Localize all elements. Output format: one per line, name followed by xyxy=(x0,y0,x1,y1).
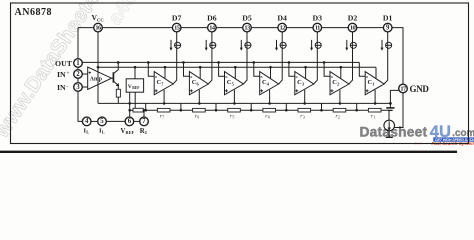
current source I5 xyxy=(240,40,251,51)
wire lower ladder line xyxy=(130,109,389,111)
pin 3 IN- xyxy=(74,83,83,92)
pin 15 terminal xyxy=(172,23,181,32)
label R2 pin7 xyxy=(140,128,147,135)
ladder tap link node 2 xyxy=(320,103,323,111)
pin 10 terminal xyxy=(348,23,357,32)
wire C4 plus input to ladder tap xyxy=(268,90,271,105)
label OUT xyxy=(55,59,73,68)
wire Vref to pin6 xyxy=(128,92,131,117)
svg-text:REF: REF xyxy=(132,86,140,90)
wire busA to C7 minus input xyxy=(147,61,154,76)
svg-text:9: 9 xyxy=(386,24,390,31)
pin 2 IN+ xyxy=(74,70,83,79)
resistor R emitter xyxy=(116,86,120,104)
wire pin3 down to pin4 xyxy=(78,91,82,121)
pin 13 terminal xyxy=(243,23,252,32)
Vref block U2 xyxy=(126,66,143,92)
label D6 xyxy=(207,13,217,22)
wire busA to C2 minus input xyxy=(323,61,330,76)
ladder tap link node 4 xyxy=(250,103,253,111)
svg-text:2: 2 xyxy=(145,130,147,135)
svg-text:IN: IN xyxy=(57,70,66,79)
wire C2 plus input to ladder tap xyxy=(339,90,342,105)
wire signal bus A from OUT xyxy=(82,61,359,63)
label Vcc xyxy=(92,13,104,22)
pin 16 terminal xyxy=(94,23,103,32)
svg-text:D7: D7 xyxy=(172,13,182,22)
resistor r1 xyxy=(368,108,381,119)
current source I2 xyxy=(345,40,356,51)
wire IN+ pin2 to amp xyxy=(82,73,87,75)
svg-text:3: 3 xyxy=(76,84,80,91)
ladder tap link node 3 xyxy=(285,103,288,111)
wire Vcc pin16 down xyxy=(97,32,100,104)
resistor r7 xyxy=(157,108,170,119)
resistor r3 xyxy=(298,108,311,119)
pin 5 IL xyxy=(98,117,107,126)
svg-text:D3: D3 xyxy=(313,13,323,22)
svg-text:CC: CC xyxy=(97,18,104,23)
ladder tap link node 6 xyxy=(180,103,183,111)
svg-text:D2: D2 xyxy=(348,13,358,22)
svg-text:1: 1 xyxy=(76,60,80,67)
svg-text:L: L xyxy=(86,130,89,135)
resistor r5 xyxy=(228,108,241,119)
wire busB drop to C4 xyxy=(269,66,272,79)
comparator C4 xyxy=(260,72,279,95)
comparator C1 xyxy=(365,72,384,95)
wire output column D3 xyxy=(314,32,318,84)
pin 17 GND xyxy=(399,84,408,93)
wire rail corner down to pin1 xyxy=(77,28,79,59)
svg-text:5: 5 xyxy=(100,118,104,125)
current source I7 xyxy=(170,40,181,51)
wire pin17 to ground node xyxy=(390,90,399,102)
label IN+ xyxy=(57,70,70,79)
svg-text:4: 4 xyxy=(268,115,270,120)
svg-text:D5: D5 xyxy=(242,13,252,22)
svg-text:OUT: OUT xyxy=(55,59,73,68)
svg-text:IN: IN xyxy=(57,83,66,92)
page bottom rule xyxy=(0,151,457,153)
resistor r4 xyxy=(263,108,276,119)
ladder tap link node 5 xyxy=(215,103,218,111)
wire busA to C6 minus input xyxy=(182,61,189,76)
logo Datasheet4U.com gray text xyxy=(360,124,428,139)
svg-text:Datasheet: Datasheet xyxy=(360,124,428,139)
wire pin5 to pin6 xyxy=(106,120,125,122)
wire C3 plus input to ladder tap xyxy=(303,90,306,105)
wire busA to C3 minus input xyxy=(288,61,295,76)
label D4 xyxy=(277,13,287,22)
label D2 xyxy=(348,13,358,22)
wire pin1-pin2-pin3 links xyxy=(77,67,79,82)
comparator C5 xyxy=(225,72,244,95)
svg-text:12: 12 xyxy=(280,24,286,31)
wire C1 plus input to ladder tap xyxy=(374,90,377,105)
wire C6 plus input to ladder tap xyxy=(198,90,201,105)
comparator C2 xyxy=(330,72,349,95)
svg-text:2: 2 xyxy=(337,82,339,87)
svg-text:6: 6 xyxy=(197,115,199,120)
svg-text:4: 4 xyxy=(85,118,89,125)
label D3 xyxy=(313,13,323,22)
wire upper ladder line xyxy=(98,102,390,104)
wire busB drop to C5 xyxy=(234,66,237,79)
svg-text:1: 1 xyxy=(372,82,374,87)
svg-text:7: 7 xyxy=(162,115,164,120)
watermark www.DataSheet4U.com xyxy=(0,0,139,143)
wire busA to C4 minus input xyxy=(253,61,260,76)
svg-text:7: 7 xyxy=(142,118,146,125)
svg-text:11: 11 xyxy=(315,24,320,31)
wire pin6 to pin7 xyxy=(134,120,140,122)
label D5 xyxy=(242,13,252,22)
svg-text:REF: REF xyxy=(126,130,135,135)
svg-text:D4: D4 xyxy=(277,13,287,22)
wire top rail pins 16 to 9 xyxy=(78,28,403,85)
pin 9 terminal xyxy=(383,23,392,32)
svg-text:D6: D6 xyxy=(207,13,217,22)
wire output column D6 xyxy=(208,32,212,84)
watermark second tile xyxy=(104,0,143,29)
resistor r2 xyxy=(333,108,346,119)
svg-text:2: 2 xyxy=(76,71,80,78)
current source I3 xyxy=(310,40,321,51)
svg-text:L: L xyxy=(102,130,105,135)
wire IN- pin3 to amp xyxy=(82,86,87,88)
svg-text:a4U: a4U xyxy=(104,0,143,29)
comparator C7 xyxy=(154,72,173,95)
schematic border frame xyxy=(11,3,469,144)
resistor r6 xyxy=(193,108,206,119)
svg-text:D1: D1 xyxy=(383,13,393,22)
pin 6 VREF xyxy=(125,117,134,126)
wire output column D5 xyxy=(243,32,247,84)
wire pin4 to pin5 xyxy=(91,120,98,122)
wire busB drop to C2 xyxy=(340,66,343,79)
svg-text:1: 1 xyxy=(373,115,375,120)
label GND xyxy=(410,84,430,94)
logo .com text xyxy=(452,128,474,139)
svg-text:3: 3 xyxy=(303,115,305,120)
wire output column D4 xyxy=(279,32,283,84)
wire bus B xyxy=(98,66,376,68)
svg-text:+: + xyxy=(67,71,70,77)
svg-text:5: 5 xyxy=(232,115,234,120)
wire busB drop to C1 xyxy=(375,67,377,79)
svg-text:2: 2 xyxy=(338,115,340,120)
wire output column D7 xyxy=(173,32,177,84)
wire C7 plus input to ladder tap xyxy=(163,90,166,105)
pin 11 terminal xyxy=(313,23,322,32)
wire pin17 to bias source (right side down) xyxy=(394,93,403,128)
current source I4 xyxy=(275,40,286,51)
logo red tagline xyxy=(414,141,474,147)
wire busB drop to C3 xyxy=(304,66,307,79)
logo blue banner xyxy=(433,137,474,142)
wire busB drop to C7 xyxy=(164,66,167,79)
svg-text:-: - xyxy=(67,84,69,90)
transistor Q1 xyxy=(112,61,120,86)
bias current source IB xyxy=(384,110,395,131)
wire output column D2 xyxy=(349,32,353,84)
comparator C3 xyxy=(295,72,314,95)
label IL pin4 xyxy=(84,128,90,135)
op-amp Amp xyxy=(88,67,112,90)
svg-text:10: 10 xyxy=(350,24,356,31)
pin 7 R2 xyxy=(140,117,149,126)
svg-text:13: 13 xyxy=(244,24,250,31)
wire pin7 up xyxy=(143,109,145,117)
label D7 xyxy=(172,13,182,22)
svg-text:AN6878: AN6878 xyxy=(15,7,52,18)
wire Vref to R1 xyxy=(134,92,136,108)
label D1 xyxy=(383,13,393,22)
svg-text:15: 15 xyxy=(174,24,180,31)
svg-text:Amp: Amp xyxy=(90,76,102,82)
pin 1 OUT xyxy=(74,59,83,68)
wire output column D1 xyxy=(384,32,388,84)
wire C5 plus input to ladder tap xyxy=(233,90,236,105)
pin 12 terminal xyxy=(278,23,287,32)
label IN- xyxy=(57,83,69,92)
title AN6878 xyxy=(15,7,52,18)
comparator C6 xyxy=(189,72,208,95)
ladder tap link node 7 xyxy=(144,103,147,111)
svg-text:GND: GND xyxy=(410,84,430,94)
ground below bias source xyxy=(386,131,393,138)
pin 14 terminal xyxy=(208,23,217,32)
ladder tap link node 1 xyxy=(355,103,358,111)
svg-text:6: 6 xyxy=(128,118,132,125)
current source I1 xyxy=(381,40,392,51)
logo 4U blue text xyxy=(430,122,451,141)
label VREF pin6 xyxy=(121,128,135,135)
wire busB drop to C6 xyxy=(199,66,202,79)
resistor R1 xyxy=(133,108,143,112)
wire busA to C1 minus input xyxy=(359,62,365,76)
current source I6 xyxy=(205,40,216,51)
wire busA to C5 minus input xyxy=(217,61,224,76)
pin 4 IL xyxy=(82,117,91,126)
label IL pin5 xyxy=(99,128,105,135)
ground ladder end xyxy=(386,102,394,110)
